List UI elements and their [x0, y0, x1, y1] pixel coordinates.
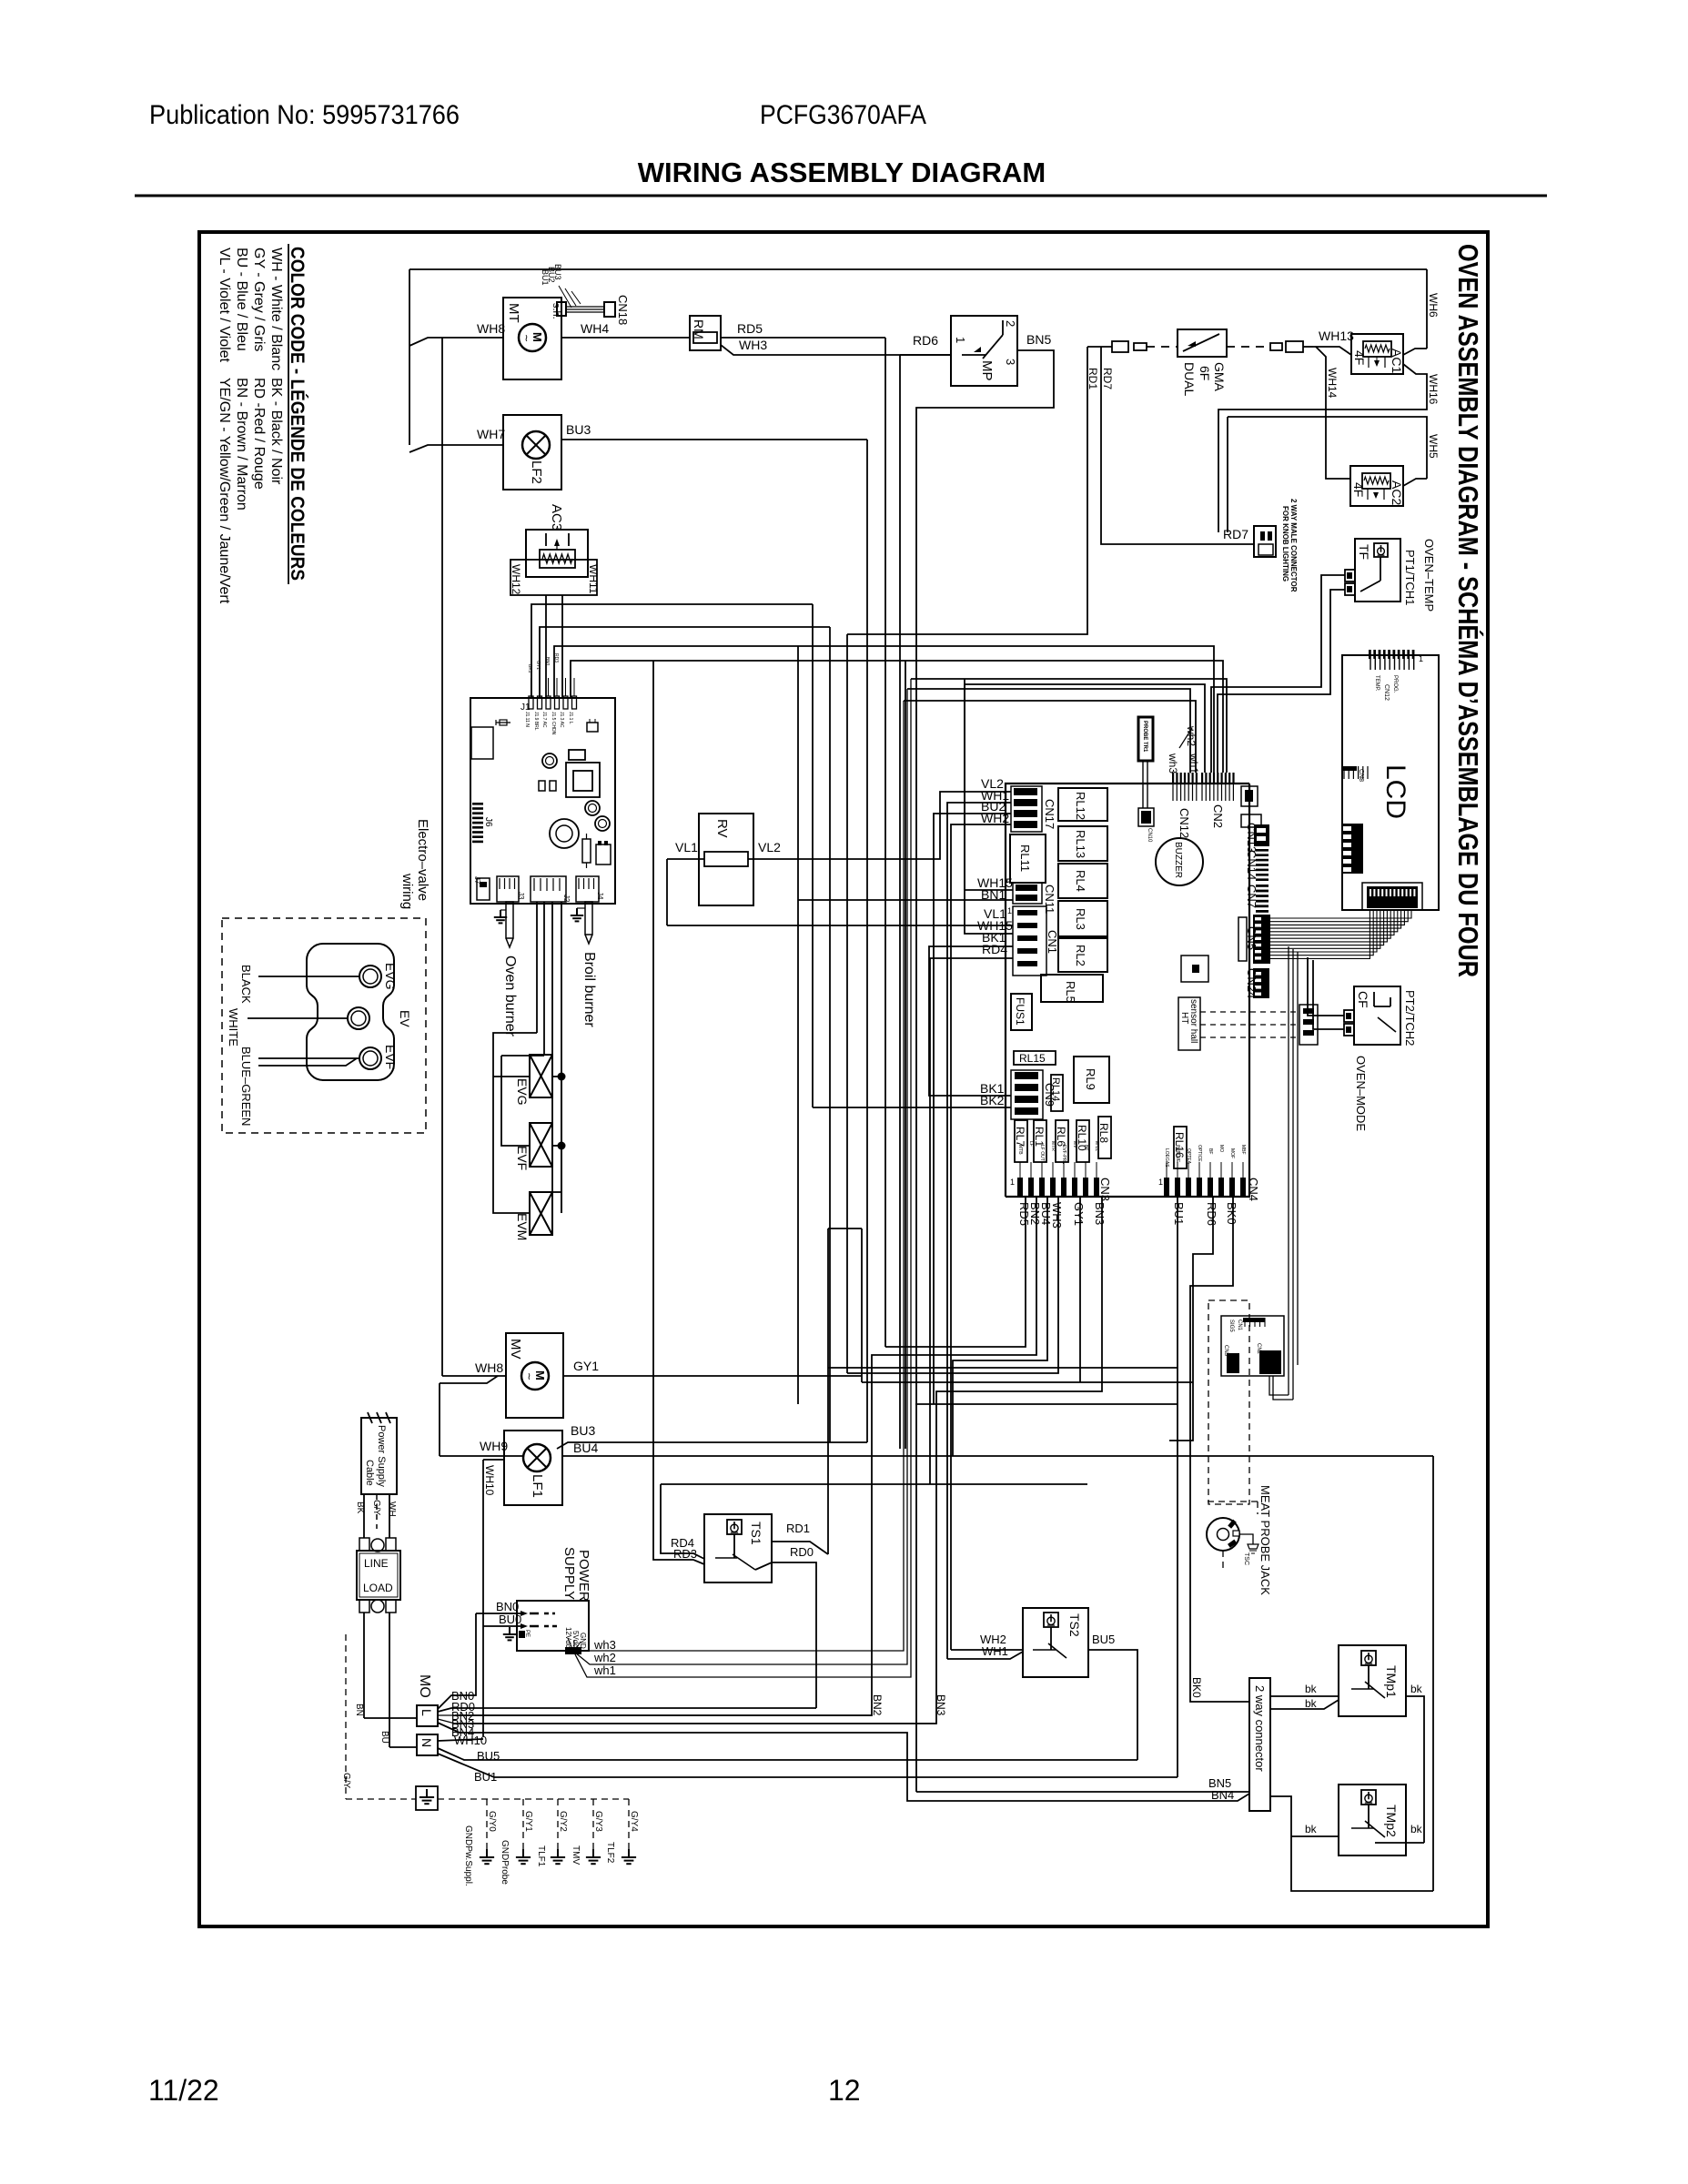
- relay RL1 box: [1034, 1120, 1046, 1162]
- svg-text:EVM: EVM: [515, 1213, 530, 1240]
- RV element: [704, 852, 748, 866]
- svg-text:J1.5 CHDN: J1.5 CHDN: [551, 712, 556, 735]
- wire WH4: [561, 337, 690, 339]
- svg-text:GY1: GY1: [573, 1359, 599, 1373]
- svg-text:12Vdc: 12Vdc: [564, 1627, 572, 1648]
- svg-text:VL1: VL1: [675, 840, 698, 854]
- connector CN7: [1256, 885, 1269, 887]
- svg-text:wh2: wh2: [593, 1651, 616, 1664]
- valve left feed wire: [493, 1033, 537, 1213]
- svg-text:BN: BN: [354, 1704, 364, 1716]
- svg-text:BN4: BN4: [1211, 1788, 1234, 1802]
- svg-text:MTR: MTR: [1050, 1141, 1056, 1151]
- svg-text:6F: 6F: [1198, 366, 1212, 380]
- connector CN17: [1014, 788, 1037, 795]
- svg-text:CN8: CN8: [1358, 769, 1364, 782]
- connector pair right of GMA: [1270, 343, 1282, 350]
- relay RL16 box: [1174, 1127, 1187, 1168]
- meat probe dashed tail: [1208, 1501, 1258, 1502]
- svg-text:WIRING ASSEMBLY DIAGRAM: WIRING ASSEMBLY DIAGRAM: [638, 157, 1046, 188]
- svg-text:LF2: LF2: [529, 460, 544, 484]
- svg-text:1: 1: [1158, 1178, 1163, 1187]
- ground tap G/Y2: [557, 1799, 559, 1849]
- wire BN2 run: [455, 1197, 1036, 1715]
- connector CN5: [1238, 917, 1247, 961]
- svg-text:Publication No: 5995731766: Publication No: 5995731766: [149, 100, 460, 130]
- svg-text:CN7: CN7: [1245, 885, 1258, 908]
- svg-text:PROG.: PROG.: [1392, 675, 1398, 693]
- svg-text:WH16: WH16: [1427, 374, 1440, 405]
- svg-text:BU1: BU1: [1172, 1202, 1186, 1225]
- spark small rect: [569, 750, 585, 760]
- meat probe wires: [1288, 946, 1289, 1395]
- wire BU4 run: [953, 1197, 1047, 1456]
- connector J6 comb: [472, 803, 483, 805]
- svg-text:WH3: WH3: [1050, 1202, 1064, 1228]
- meat probe pcb: [1221, 1316, 1284, 1376]
- connector J3: [497, 876, 519, 902]
- svg-text:RD6: RD6: [1205, 1202, 1218, 1226]
- svg-text:BN3: BN3: [935, 1694, 947, 1716]
- svg-text:∼: ∼: [521, 334, 531, 342]
- relay RL4 box: [1058, 864, 1107, 898]
- lamp LF1 symbol: [523, 1444, 551, 1471]
- svg-text:CN5: CN5: [1245, 926, 1258, 950]
- svg-text:Electro–valve: Electro–valve: [415, 819, 430, 901]
- wire loop bottom right: [1270, 1796, 1433, 1891]
- svg-text:RL8: RL8: [1097, 1123, 1110, 1143]
- svg-text:CN13: CN13: [1245, 823, 1258, 853]
- svg-text:WH8: WH8: [475, 1360, 503, 1375]
- small connector right of CN2: [1241, 786, 1258, 806]
- wires to EVF: [258, 1057, 359, 1059]
- svg-text:FUS1: FUS1: [1014, 997, 1026, 1026]
- relay RL9 box: [1074, 1057, 1109, 1103]
- svg-text:RL5: RL5: [1064, 981, 1077, 1003]
- svg-text:M: M: [531, 332, 544, 342]
- svg-text:WH1: WH1: [982, 1644, 1008, 1658]
- heater AC3 outer wire box: [510, 560, 597, 595]
- relay RL15 labeled box: [1014, 1051, 1056, 1065]
- svg-text:WH7: WH7: [477, 427, 505, 441]
- svg-text:J2: J2: [562, 895, 571, 903]
- wires from CF to bundle: [1308, 957, 1344, 1016]
- svg-text:PROBE TR1: PROBE TR1: [1142, 721, 1147, 753]
- svg-text:BN5: BN5: [1026, 332, 1051, 347]
- svg-text:WH10: WH10: [483, 1465, 496, 1496]
- svg-text:MTB: MTB: [1017, 1145, 1023, 1155]
- svg-text:M: M: [533, 1370, 547, 1380]
- thermal switch TMp1 box: [1339, 1645, 1406, 1716]
- lamp LF2 box: [503, 415, 561, 490]
- relay RM element: [693, 332, 717, 343]
- electro-valve dashed box: [222, 918, 426, 1133]
- svg-text:TMV: TMV: [571, 1845, 581, 1865]
- svg-text:BU0: BU0: [499, 1613, 521, 1626]
- wire TS1 RD1 to right: [827, 1228, 829, 1554]
- ground rail dashed from filter: [345, 1634, 347, 1799]
- valve EVG: [530, 1055, 552, 1097]
- svg-text:N: N: [419, 1738, 434, 1747]
- spark module corner box: [471, 727, 493, 759]
- heater AC3 box: [526, 530, 588, 577]
- svg-text:bk: bk: [1410, 1683, 1423, 1695]
- svg-text:wh1: wh1: [593, 1663, 616, 1677]
- svg-text:G/Y0: G/Y0: [487, 1811, 497, 1832]
- svg-text:LF1: LF1: [530, 1474, 545, 1498]
- wire dashed right of GMA: [1227, 346, 1270, 348]
- spark module board outline: [470, 698, 615, 904]
- wire left loop from MT/LF2: [409, 269, 410, 445]
- svg-text:GND: GND: [579, 1633, 587, 1649]
- svg-text:WH - White / Blanc: WH - White / Blanc: [268, 248, 284, 370]
- probe TR1: [1138, 717, 1153, 761]
- wire BU to N: [389, 1746, 417, 1748]
- svg-text:RL14: RL14: [1050, 1077, 1061, 1101]
- svg-text:GNDProbe: GNDProbe: [500, 1840, 510, 1885]
- svg-text:CN24: CN24: [1245, 968, 1258, 998]
- buzzer circle: [1156, 838, 1203, 885]
- meat probe CN3 connector: [1227, 1353, 1239, 1373]
- connector CN24: [1253, 968, 1269, 998]
- thermal switch TMp2 box: [1339, 1785, 1406, 1855]
- legend title underline: [288, 244, 289, 584]
- svg-text:3: 3: [1004, 359, 1017, 365]
- svg-text:J1.11 N: J1.11 N: [524, 712, 530, 727]
- wire BU1 run: [1177, 1197, 1178, 1777]
- svg-text:RD5: RD5: [737, 321, 763, 336]
- svg-text:EVF-PRL: EVF-PRL: [1061, 1145, 1066, 1164]
- svg-text:OPTICE: OPTICE: [1197, 1145, 1202, 1162]
- thermal fuse TF box: [1355, 539, 1400, 602]
- svg-text:G/Y3: G/Y3: [593, 1811, 603, 1832]
- svg-text:BN - Brown / Marron: BN - Brown / Marron: [234, 378, 249, 511]
- connector CN14: [1256, 849, 1269, 852]
- svg-text:LF OUT: LF OUT: [1039, 1145, 1045, 1161]
- svg-text:WH12: WH12: [510, 564, 522, 595]
- svg-text:G/Y4: G/Y4: [629, 1811, 639, 1832]
- svg-text:TMp1: TMp1: [1384, 1665, 1399, 1698]
- svg-text:Cable: Cable: [364, 1460, 375, 1486]
- svg-text:Power Supply: Power Supply: [376, 1425, 387, 1487]
- fan motor MV box: [506, 1333, 563, 1418]
- svg-text:WH11: WH11: [587, 564, 600, 594]
- svg-text:J7: J7: [473, 876, 481, 885]
- junction dots: [558, 1073, 566, 1081]
- 2 way male connector for knob lighting: [1254, 526, 1276, 557]
- svg-text:RD7: RD7: [1223, 527, 1248, 541]
- svg-text:1: 1: [1010, 1178, 1015, 1187]
- spark transformer square: [566, 763, 600, 797]
- svg-text:TS2: TS2: [1067, 1613, 1082, 1637]
- relay RL7 box: [1015, 1120, 1027, 1162]
- relay RL2 box: [1058, 938, 1107, 972]
- 2 way connector box: [1249, 1678, 1270, 1811]
- svg-text:TEMP.: TEMP.: [1374, 675, 1380, 692]
- motor MT symbol: [519, 324, 546, 351]
- CF connector squares: [1344, 1010, 1354, 1022]
- terminal N box: [417, 1734, 438, 1755]
- svg-text:wh3: wh3: [593, 1638, 616, 1652]
- svg-text:WH5: WH5: [1427, 434, 1440, 459]
- svg-text:RL12: RL12: [1074, 792, 1087, 820]
- svg-text:RL1: RL1: [1033, 1127, 1046, 1147]
- svg-text:IN BLUE: IN BLUE: [1175, 1145, 1180, 1163]
- svg-text:WH2: WH2: [981, 811, 1009, 825]
- svg-text:MEAT PROBE JACK: MEAT PROBE JACK: [1258, 1485, 1272, 1595]
- svg-text:wh3: wh3: [1167, 753, 1179, 773]
- svg-text:CN17: CN17: [1043, 799, 1056, 829]
- svg-text:J1.7 AC: J1.7 AC: [541, 712, 547, 728]
- thermostat TS1 box: [704, 1514, 772, 1582]
- svg-text:WH8: WH8: [477, 321, 505, 336]
- LCD CN8 connector: [1343, 766, 1345, 779]
- sensor hall dashed wires: [1200, 1011, 1299, 1013]
- svg-text:bk: bk: [1410, 1823, 1423, 1835]
- svg-text:J4: J4: [596, 892, 604, 900]
- svg-text:PT2/TCH2: PT2/TCH2: [1403, 990, 1417, 1046]
- svg-text:BLACK: BLACK: [239, 965, 253, 1004]
- svg-text:RD7: RD7: [1101, 368, 1114, 389]
- board comb CN2: [1201, 773, 1203, 784]
- wire dashed to GMA: [1147, 346, 1178, 348]
- svg-text:MO: MO: [1218, 1145, 1224, 1152]
- meat probe jack TSC connector: [1239, 1534, 1253, 1544]
- svg-text:1: 1: [954, 337, 967, 343]
- wire to EVG: [258, 976, 359, 977]
- heater AC1 element: [1363, 341, 1391, 357]
- connector pair left of GMA: [1112, 341, 1128, 352]
- connector CN13: [1254, 824, 1269, 846]
- spark rings: [542, 753, 557, 768]
- svg-text:RD0: RD0: [790, 1545, 814, 1559]
- TS1 switch: [715, 1557, 737, 1559]
- svg-text:EV: EV: [398, 1010, 412, 1027]
- svg-text:CN3: CN3: [1223, 1345, 1228, 1357]
- svg-text:MBF: MBF: [1240, 1145, 1246, 1155]
- line filter box: [357, 1551, 400, 1600]
- svg-text:RL3: RL3: [1074, 908, 1087, 930]
- svg-text:bk: bk: [1305, 1823, 1318, 1835]
- ground tap G/Y0: [486, 1799, 488, 1849]
- small component near CN24: [1181, 955, 1208, 982]
- svg-text:J1.3 AC: J1.3 AC: [559, 712, 564, 728]
- svg-text:GMA: GMA: [1212, 362, 1227, 392]
- svg-text:MT: MT: [506, 303, 521, 323]
- wire bundle feeding CN2: [911, 679, 1227, 773]
- svg-text:BU3: BU3: [553, 264, 562, 280]
- heater AC1 box: [1351, 334, 1403, 374]
- svg-text:2 way connector: 2 way connector: [1253, 1685, 1267, 1772]
- TS1 thermo symbol: [727, 1520, 742, 1534]
- svg-text:GY - Grey / Gris: GY - Grey / Gris: [251, 248, 267, 351]
- valve right bus wire: [561, 1077, 562, 1213]
- svg-text:Broil burner: Broil burner: [581, 952, 597, 1027]
- relay RL8 box: [1098, 1117, 1111, 1158]
- svg-text:MOF: MOF: [1229, 1148, 1235, 1158]
- svg-text:wiring: wiring: [399, 873, 415, 909]
- TS2 switch: [1033, 1649, 1056, 1651]
- svg-text:1: 1: [1007, 906, 1012, 915]
- heater AC2 box: [1350, 466, 1403, 506]
- svg-text:BK0: BK0: [1190, 1677, 1203, 1698]
- svg-text:TLF2: TLF2: [605, 1842, 615, 1864]
- svg-text:LINE: LINE: [364, 1557, 389, 1570]
- svg-text:RD1: RD1: [786, 1522, 810, 1535]
- relay RL13 box: [1058, 826, 1107, 861]
- connector J4: [576, 876, 599, 902]
- TS2 thermo symbol: [1044, 1613, 1058, 1627]
- wire AC2 right: [1403, 479, 1427, 486]
- spark big ring: [550, 819, 579, 848]
- svg-text:MV: MV: [1072, 1141, 1077, 1148]
- svg-text:RV: RV: [714, 819, 730, 838]
- valve EVF: [530, 1123, 552, 1167]
- wire RD6 run: [1169, 1197, 1213, 1441]
- EV pin EVG: [359, 966, 381, 987]
- svg-text:BU: BU: [379, 1731, 389, 1744]
- svg-text:CN2: CN2: [1256, 1343, 1261, 1355]
- wires AC3 to J1: [545, 595, 547, 698]
- svg-text:11/22: 11/22: [148, 2074, 219, 2107]
- diagram border frame: [199, 232, 1488, 1926]
- EV connector outline: [307, 944, 394, 1080]
- svg-text:OPTEA: OPTEA: [1186, 1148, 1191, 1165]
- power supply ground: [509, 1627, 510, 1634]
- svg-text:MP: MP: [979, 360, 995, 381]
- main control board outline: [1006, 784, 1249, 1197]
- svg-text:4F: 4F: [1352, 350, 1367, 365]
- title rule: [135, 195, 1547, 197]
- terminal L box: [417, 1705, 438, 1726]
- valve EVM: [530, 1192, 552, 1235]
- LCD bottom ribbon connector: [1367, 886, 1418, 908]
- svg-text:CN2: CN2: [1211, 804, 1225, 828]
- svg-text:AC3: AC3: [549, 504, 564, 531]
- CF switch symbol: [1373, 992, 1375, 1006]
- relay RM box: [690, 316, 721, 350]
- svg-text:BN0: BN0: [496, 1600, 519, 1613]
- svg-text:WH14: WH14: [1326, 368, 1339, 399]
- svg-text:LOAD: LOAD: [363, 1582, 393, 1594]
- svg-text:RL11: RL11: [1018, 844, 1032, 872]
- svg-text:RL15: RL15: [1019, 1052, 1046, 1065]
- svg-text:DUAL: DUAL: [1182, 362, 1197, 397]
- spark module fuse: [496, 722, 510, 723]
- svg-text:HT: HT: [1179, 1012, 1189, 1024]
- svg-text:EVG: EVG: [383, 963, 398, 990]
- line filter terminals top: [359, 1538, 369, 1551]
- svg-text:12: 12: [828, 2074, 861, 2107]
- lamp LF2 symbol: [522, 431, 550, 459]
- svg-text:OVEN ASSEMBLY DIAGRAM - SCHÉ: OVEN ASSEMBLY DIAGRAM - SCHÉMA D’ASSEMBL…: [1452, 244, 1484, 977]
- svg-text:2 WAY MALE CONNECTOR: 2 WAY MALE CONNECTOR: [1289, 499, 1298, 592]
- svg-text:PCFG3670AFA: PCFG3670AFA: [760, 100, 926, 130]
- svg-text:EVG: EVG: [515, 1078, 530, 1106]
- svg-text:WHITE: WHITE: [227, 1008, 240, 1046]
- broil burner arrow: [585, 902, 592, 944]
- spark ring b: [585, 801, 600, 815]
- switch MP symbol: [962, 354, 986, 356]
- spark fuse vertical: [582, 839, 591, 863]
- wires from TF to board: [1211, 575, 1345, 773]
- connector CN9: [1015, 1072, 1038, 1079]
- svg-text:BK - Black / Noir: BK - Black / Noir: [268, 378, 284, 485]
- meat probe dashed box: [1208, 1300, 1249, 1504]
- svg-text:WH13: WH13: [1319, 329, 1354, 343]
- svg-text:RD3: RD3: [673, 1547, 697, 1561]
- wire VL1 loop down: [666, 859, 668, 925]
- relay RL12 box: [1058, 788, 1107, 821]
- svg-text:TLF1: TLF1: [536, 1845, 546, 1867]
- svg-text:RL13: RL13: [1074, 830, 1087, 858]
- gas valve RV box: [699, 814, 753, 905]
- svg-text:CN12: CN12: [1383, 684, 1390, 701]
- svg-text:TSC: TSC: [1243, 1552, 1249, 1565]
- CN5 to LCD ribbon: [1270, 910, 1411, 918]
- svg-text:BN1: BN1: [544, 657, 550, 666]
- sensor hall box: [1178, 997, 1200, 1050]
- ground tap G/Y4: [628, 1799, 630, 1849]
- motor MT box: [503, 298, 561, 379]
- wire BN3 run: [455, 1197, 1102, 1724]
- connector CN18: [557, 302, 566, 316]
- svg-text:EVF: EVF: [515, 1146, 530, 1170]
- svg-text:BU - Blue / Bleu: BU - Blue / Bleu: [234, 248, 249, 351]
- svg-text:AC1: AC1: [1390, 349, 1404, 373]
- svg-text:WH9: WH9: [480, 1439, 508, 1453]
- wire BN to L: [364, 1717, 417, 1719]
- ground tap G/Y3: [592, 1799, 594, 1849]
- svg-text:BF: BF: [1208, 1148, 1213, 1154]
- svg-text:CN18: CN18: [616, 295, 630, 325]
- LCD CN12 comb connector: [1370, 650, 1371, 670]
- svg-text:LF: LF: [1028, 1141, 1034, 1147]
- svg-text:CF: CF: [1356, 991, 1370, 1008]
- relay RL3 box: [1058, 901, 1107, 936]
- svg-text:AC2: AC2: [1390, 480, 1404, 505]
- lamp LF1 box: [504, 1431, 562, 1505]
- svg-text:POWER: POWER: [576, 1550, 591, 1602]
- wire bundle verticals center: [812, 604, 814, 1107]
- svg-text:WH3: WH3: [739, 338, 767, 352]
- svg-text:PE: PE: [524, 1630, 530, 1637]
- svg-text:CN11: CN11: [1043, 885, 1056, 914]
- spark small part a: [587, 723, 598, 732]
- svg-text:Oven burner: Oven burner: [502, 955, 518, 1037]
- svg-text:MO: MO: [417, 1674, 432, 1698]
- chassis ground box: [416, 1786, 438, 1810]
- svg-text:RL9: RL9: [1084, 1068, 1097, 1090]
- svg-text:CN14: CN14: [1245, 850, 1258, 880]
- svg-text:G/Y2: G/Y2: [558, 1811, 568, 1832]
- svg-text:GNDPw.Suppl.: GNDPw.Suppl.: [463, 1825, 473, 1886]
- TF thermo symbol: [1374, 543, 1388, 557]
- svg-text:MV: MV: [508, 1339, 523, 1360]
- spark caps: [539, 781, 545, 791]
- relay RL14 box: [1051, 1075, 1063, 1111]
- filter output wires: [363, 1613, 365, 1718]
- line filter terminals bottom: [359, 1600, 369, 1613]
- sensor hall connector: [1299, 1005, 1318, 1045]
- EV pin middle: [348, 1007, 369, 1029]
- wires from J2 down to valves: [536, 902, 538, 1033]
- svg-text:OVEN–MODE: OVEN–MODE: [1354, 1056, 1368, 1131]
- svg-text:CN10: CN10: [1147, 828, 1152, 843]
- svg-text:RL4: RL4: [1074, 870, 1087, 892]
- svg-text:RD -Red / Rouge: RD -Red / Rouge: [251, 378, 267, 490]
- relay RL10 box: [1076, 1120, 1089, 1162]
